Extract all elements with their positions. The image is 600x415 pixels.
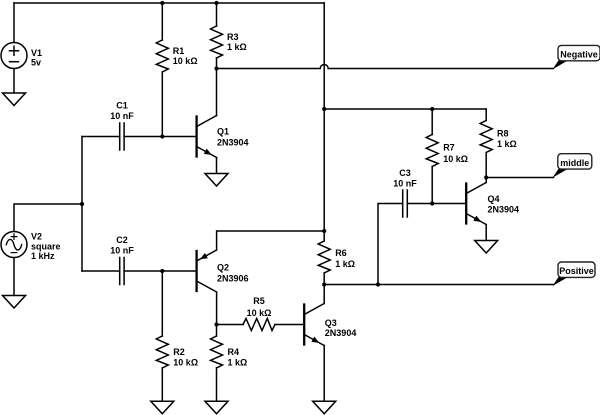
- junction node at 324.2,109: [322, 107, 326, 111]
- svg-text:Q4: Q4: [488, 194, 500, 204]
- ground under Q4: [475, 241, 498, 254]
- wire R5 right lead: [275, 324, 304, 326]
- wire R3 bottom lead: [216, 58, 218, 69]
- svg-text:R4: R4: [228, 347, 240, 357]
- wire R2 top lead: [161, 271, 163, 336]
- wire Q2 emitter to bus: [217, 231, 325, 250]
- wire top supply rail: [14, 2, 324, 4]
- label R2 value: [173, 347, 198, 368]
- wire C1 left lead: [82, 136, 120, 138]
- svg-text:R8: R8: [497, 129, 509, 139]
- ground under Q1: [205, 174, 228, 187]
- junction node at 324.2,231: [322, 229, 326, 233]
- svg-text:C2: C2: [116, 235, 128, 245]
- label C3 value: [393, 168, 417, 189]
- wire V1 bottom lead: [13, 69, 15, 94]
- wire R4 top lead: [216, 325, 218, 337]
- svg-text:middle: middle: [560, 158, 589, 168]
- wire Q3 emitter lead: [323, 346, 325, 402]
- wire R8 bottom lead: [485, 153, 487, 178]
- node flag middle: [553, 154, 592, 178]
- resistor R6: [318, 241, 330, 273]
- resistor R7: [426, 135, 438, 167]
- svg-text:C3: C3: [399, 168, 411, 178]
- svg-text:R7: R7: [443, 143, 455, 153]
- label R4 value: [228, 347, 248, 368]
- node flag Negative: [553, 45, 600, 69]
- wire C1 to Q1 base: [124, 136, 197, 138]
- svg-text:1 kΩ: 1 kΩ: [227, 42, 247, 52]
- transistor Q4: [466, 183, 486, 225]
- junction node at 216.5,68.5: [214, 66, 218, 70]
- wire R4 bottom lead: [216, 368, 218, 401]
- wire bus to R7 R8 feed: [324, 108, 486, 110]
- wire Q2 collector lead: [216, 292, 218, 325]
- ground under R2: [151, 401, 174, 414]
- junction node at 162.3,3: [160, 1, 164, 5]
- transistor Q1: [197, 116, 217, 158]
- wire R7 bottom lead: [431, 167, 433, 204]
- resistor R5: [243, 319, 275, 331]
- ground under R4: [205, 401, 228, 414]
- label V2 value: [31, 232, 61, 262]
- svg-text:R6: R6: [335, 248, 347, 258]
- label V1 value: [31, 48, 42, 68]
- svg-text:1 kΩ: 1 kΩ: [228, 358, 248, 368]
- wire V2 to input node: [14, 204, 82, 232]
- wire R5 left lead: [217, 324, 244, 326]
- label Q4 value: [488, 194, 520, 215]
- junction node at 162.3,271: [160, 269, 164, 273]
- node flag Positive: [553, 262, 596, 286]
- junction node at 324.2,284.5: [322, 282, 326, 286]
- label R7 value: [443, 143, 468, 165]
- svg-text:1 kHz: 1 kHz: [31, 251, 55, 261]
- wire V1 top lead: [13, 3, 15, 43]
- junction node at 162.3,136.5: [160, 134, 164, 138]
- wire R3 top lead: [216, 3, 218, 26]
- label R3 value: [227, 32, 247, 52]
- ground under V1: [3, 93, 26, 106]
- svg-text:Negative: Negative: [560, 50, 598, 60]
- wire R8 top lead: [485, 109, 487, 121]
- wire C2 to Q2 base: [124, 270, 197, 272]
- svg-text:10 kΩ: 10 kΩ: [173, 358, 198, 368]
- label R8 value: [497, 129, 517, 150]
- wire main vertical bus upper: [323, 3, 325, 241]
- wire Q4 collector lead: [485, 178, 487, 183]
- wire V2 bottom lead: [13, 258, 15, 296]
- wire input node column: [81, 137, 83, 272]
- wire C2 left lead: [82, 270, 120, 272]
- label R1 value: [173, 46, 198, 66]
- label Q1 value: [217, 127, 249, 148]
- resistor R1: [156, 40, 168, 72]
- svg-text:10 kΩ: 10 kΩ: [173, 56, 198, 66]
- wire Q4 emitter lead: [485, 225, 487, 241]
- svg-text:R5: R5: [253, 296, 265, 306]
- wire R6 bottom lead: [323, 273, 325, 285]
- voltage source V2: [1, 232, 27, 258]
- svg-text:2N3904: 2N3904: [325, 328, 357, 338]
- junction node at 378,284.5: [376, 282, 380, 286]
- transistor Q3: [304, 304, 324, 346]
- svg-text:square: square: [31, 242, 61, 252]
- svg-text:5v: 5v: [31, 58, 41, 68]
- wire R1 bottom lead: [161, 72, 163, 137]
- svg-text:Q2: Q2: [217, 262, 229, 272]
- svg-text:10 kΩ: 10 kΩ: [443, 154, 468, 164]
- ground under Q3: [313, 401, 336, 414]
- svg-text:V1: V1: [31, 48, 42, 58]
- capacitor C3: [403, 190, 408, 217]
- svg-text:R2: R2: [173, 347, 185, 357]
- svg-text:Q3: Q3: [325, 318, 337, 328]
- junction node at 486.2,177.5: [484, 175, 488, 179]
- svg-text:R1: R1: [173, 46, 185, 56]
- wire middle net: [486, 177, 553, 179]
- wire Q1 emitter lead: [216, 158, 218, 174]
- transistor Q2: [197, 250, 217, 292]
- svg-text:1 kΩ: 1 kΩ: [497, 139, 517, 149]
- svg-text:10 nF: 10 nF: [110, 111, 134, 121]
- svg-text:C1: C1: [116, 101, 128, 111]
- junction node at 82,204: [80, 202, 84, 206]
- svg-text:2N3906: 2N3906: [217, 274, 249, 284]
- svg-text:10 nF: 10 nF: [393, 179, 417, 189]
- resistor R2: [156, 336, 168, 368]
- voltage source V1: [1, 43, 27, 69]
- wire C3 to Q4 base: [407, 203, 466, 205]
- label C1 value: [110, 101, 134, 122]
- wire R2 bottom lead: [161, 368, 163, 401]
- junction node at 216.5,324.5: [214, 322, 218, 326]
- svg-text:2N3904: 2N3904: [217, 138, 249, 148]
- wire positive node to C3: [378, 204, 403, 285]
- wire Q3 collector lead: [323, 285, 325, 304]
- label Q2 value: [217, 262, 249, 283]
- label R5 value: [247, 296, 272, 318]
- svg-text:R3: R3: [227, 32, 239, 42]
- svg-text:2N3904: 2N3904: [488, 205, 520, 215]
- wire positive net: [324, 284, 553, 286]
- label R6 value: [335, 248, 355, 269]
- svg-text:Q1: Q1: [217, 127, 229, 137]
- wire R7 top lead: [431, 109, 433, 135]
- junction node at 216.5,3: [214, 1, 218, 5]
- svg-text:10 nF: 10 nF: [110, 246, 134, 256]
- wire negative net with crossover hop: [217, 65, 554, 69]
- wire Q1 collector lead: [216, 69, 218, 116]
- resistor R8: [480, 121, 492, 153]
- label C2 value: [110, 235, 134, 256]
- ground under V2: [3, 296, 26, 309]
- svg-text:V2: V2: [31, 232, 42, 242]
- junction node at 432.2,109: [430, 107, 434, 111]
- svg-text:1 kΩ: 1 kΩ: [335, 259, 355, 269]
- resistor R3: [211, 26, 223, 58]
- junction node at 432.2,203.5: [430, 201, 434, 205]
- wire R1 top lead: [161, 3, 163, 40]
- svg-text:10 kΩ: 10 kΩ: [247, 308, 272, 318]
- svg-text:Positive: Positive: [559, 266, 594, 276]
- resistor R4: [211, 336, 223, 368]
- capacitor C2: [120, 258, 124, 285]
- capacitor C1: [120, 123, 124, 150]
- label Q3 value: [325, 318, 357, 338]
